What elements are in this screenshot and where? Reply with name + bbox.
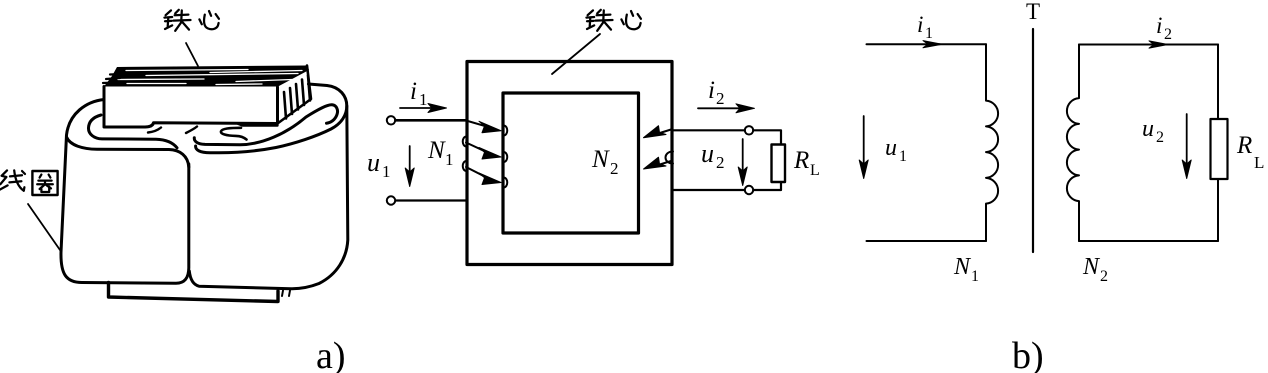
svg-text:R: R — [1236, 132, 1252, 159]
primary coil L1 — [986, 44, 998, 241]
svg-text:2: 2 — [1156, 129, 1164, 146]
winding N1 turns — [463, 121, 508, 188]
core outer square — [467, 62, 672, 265]
primary top wire — [867, 43, 987, 45]
svg-text:2: 2 — [716, 89, 725, 108]
secondary top wire — [1079, 44, 1218, 46]
lamination hatch stack — [104, 66, 309, 87]
right coil ring inner front edge — [194, 105, 337, 145]
svg-text:N: N — [953, 254, 972, 280]
current i2 arrow — [698, 104, 755, 113]
secondary coil L2 — [1067, 45, 1079, 242]
terminal circle top-right — [745, 126, 753, 134]
svg-text:i: i — [708, 77, 715, 104]
svg-text:N: N — [427, 137, 446, 164]
right coil ring outer front edge — [196, 84, 347, 153]
label 铁心 (schematic) — [552, 10, 641, 74]
wire top-left — [396, 119, 467, 122]
base plate — [109, 283, 291, 302]
svg-text:N: N — [1082, 254, 1101, 280]
svg-text:2: 2 — [610, 159, 619, 178]
svg-text:2: 2 — [716, 153, 725, 172]
svg-text:L: L — [1254, 153, 1264, 172]
core line — [1032, 29, 1034, 252]
N1 inner-edge loops — [504, 126, 508, 136]
secondary bottom wire — [1079, 240, 1218, 242]
svg-text:a): a) — [316, 335, 346, 373]
wire bottom-left — [396, 199, 467, 201]
svg-text:T: T — [1026, 0, 1040, 24]
svg-text:1: 1 — [899, 148, 907, 165]
svg-text:1: 1 — [382, 162, 391, 181]
wire bottom-right — [672, 189, 745, 191]
svg-text:b): b) — [1012, 335, 1044, 373]
svg-text:L: L — [810, 162, 820, 179]
wire top-right — [672, 129, 745, 131]
leader line to core — [186, 43, 198, 66]
svg-text:1: 1 — [419, 90, 428, 109]
right coil block outline — [189, 106, 348, 289]
leader line to core — [552, 34, 600, 74]
svg-text:1: 1 — [925, 25, 933, 42]
left coil ring outer band bottom — [67, 137, 189, 167]
terminal circle bottom-right — [745, 186, 753, 194]
core lamination bar front face — [104, 87, 278, 128]
svg-text:i: i — [1156, 13, 1162, 38]
load resistor RL — [1211, 119, 1228, 179]
leader line to coil — [28, 204, 60, 250]
svg-text:R: R — [793, 147, 809, 174]
svg-text:1: 1 — [971, 268, 979, 285]
svg-text:u: u — [701, 139, 714, 168]
terminal circle bottom-left — [387, 196, 395, 204]
voltage u2 arrow — [738, 139, 747, 186]
right coil ring slot left cap hook — [221, 128, 247, 140]
left coil ring inner slot — [88, 115, 177, 148]
voltage u1 arrow — [859, 116, 868, 179]
voltage u1 arrow — [405, 146, 414, 187]
ring arc marks below bar — [148, 127, 197, 134]
svg-text:2: 2 — [1164, 26, 1172, 43]
secondary right wire lower — [1217, 179, 1219, 241]
current i1 arrowhead on wire — [923, 41, 942, 48]
primary bottom wire — [867, 240, 987, 242]
N2 outer-edge loop — [666, 152, 674, 164]
svg-text:N: N — [591, 146, 610, 173]
label 线圈 (left figure) — [0, 170, 60, 250]
svg-text:1: 1 — [445, 150, 454, 169]
secondary right wire upper — [1217, 45, 1219, 120]
svg-text:i: i — [410, 78, 417, 105]
voltage u2 arrow — [1182, 114, 1191, 179]
svg-text:i: i — [917, 12, 923, 37]
current i1 arrow — [400, 104, 447, 113]
svg-text:u: u — [885, 135, 897, 161]
svg-text:2: 2 — [1100, 268, 1108, 285]
lamination side sheets — [278, 66, 312, 124]
load resistor RL — [772, 145, 786, 183]
N1 outer-edge loops — [463, 137, 467, 147]
label 铁心 (left figure) — [164, 10, 219, 66]
terminal circle top-left — [387, 116, 395, 124]
svg-text:u: u — [1142, 116, 1154, 142]
core inner square — [503, 93, 639, 233]
winding N2 turns — [644, 126, 674, 169]
wire from bottom terminal to load — [753, 182, 781, 190]
svg-text:u: u — [367, 148, 380, 177]
left coil block outline — [61, 100, 189, 284]
wire from top terminal to load — [753, 130, 781, 144]
current i2 arrowhead on wire — [1149, 41, 1168, 48]
